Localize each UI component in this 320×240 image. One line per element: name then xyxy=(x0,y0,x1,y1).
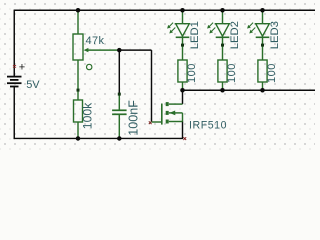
svg-text:100: 100 xyxy=(186,63,198,83)
LED2 xyxy=(216,10,230,60)
junction node 100k ground xyxy=(76,136,81,141)
wire left battery loop xyxy=(13,10,15,76)
junction node LED2 top xyxy=(220,8,225,13)
svg-text:100nF: 100nF xyxy=(127,100,141,136)
source wire connection mark (red) xyxy=(183,137,186,140)
svg-text:47k: 47k xyxy=(86,35,105,47)
gate wire connection mark (red) xyxy=(149,121,152,124)
pin junction square capacitor xyxy=(118,93,121,96)
resistor R2 100k xyxy=(74,100,83,138)
pin junction square pot/100k xyxy=(77,89,80,92)
capacitor C1 100nF xyxy=(112,94,127,138)
junction node wiper/gate xyxy=(117,48,122,53)
potentiometer adjust circle xyxy=(87,64,92,69)
grid background xyxy=(0,0,315,153)
transistor Q1 IRF510 N-MOSFET xyxy=(152,102,183,125)
wire bottom ground rail xyxy=(14,137,184,139)
svg-text:LED1: LED1 xyxy=(189,21,201,49)
svg-text:LED2: LED2 xyxy=(229,21,241,49)
LED3 xyxy=(256,10,270,60)
resistor R4 100 xyxy=(218,60,227,90)
wire top rail +5V xyxy=(14,9,315,11)
junction node R5 return xyxy=(260,88,265,93)
wire gate node vertical xyxy=(151,50,153,122)
wire wiper to capacitor xyxy=(118,50,120,94)
resistor R5 100 xyxy=(258,60,267,90)
resistor R3 100 xyxy=(178,60,187,90)
potentiometer wiper arrow xyxy=(84,48,119,52)
junction node LED1 top xyxy=(180,8,185,13)
svg-text:100k: 100k xyxy=(81,102,95,129)
LED1 emission arrows xyxy=(167,23,175,34)
LED1 xyxy=(176,10,190,60)
battery BT1 5V xyxy=(7,77,22,87)
wire wiper node horizontal xyxy=(119,49,152,51)
svg-text:LED3: LED3 xyxy=(269,21,281,49)
wire LED return rail xyxy=(183,89,316,91)
junction node LED3 top xyxy=(260,8,265,13)
pin junction square LED2 xyxy=(221,44,224,47)
junction node cap ground xyxy=(117,136,122,141)
svg-text:5V: 5V xyxy=(26,79,40,91)
LED3 emission arrows xyxy=(247,23,255,34)
wire source to ground rail xyxy=(182,122,184,139)
svg-text:IRF510: IRF510 xyxy=(189,119,227,131)
junction node R4 return xyxy=(220,88,225,93)
svg-text:100: 100 xyxy=(226,63,238,83)
wire drain to rail xyxy=(182,90,184,104)
svg-text:100: 100 xyxy=(266,63,278,83)
pin junction square LED1 xyxy=(181,44,184,47)
battery plus connection mark (red) xyxy=(13,65,16,67)
LED2 emission arrows xyxy=(207,23,215,34)
junction node drain/R3 xyxy=(180,88,185,93)
junction node pot top xyxy=(76,8,81,13)
potentiometer R1 47k body xyxy=(73,10,83,100)
svg-text:+: + xyxy=(19,62,25,74)
pin junction square LED3 xyxy=(261,44,264,47)
